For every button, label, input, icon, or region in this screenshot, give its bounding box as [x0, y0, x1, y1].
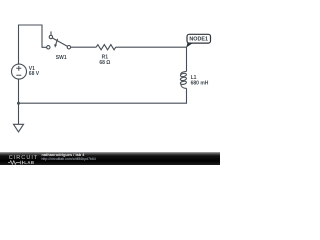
svg-text:680 mH: 680 mH	[191, 81, 209, 87]
svg-text:68 V: 68 V	[29, 71, 40, 77]
svg-text:68 Ω: 68 Ω	[99, 60, 110, 66]
svg-text:SW1: SW1	[56, 55, 67, 61]
svg-text:NODE1: NODE1	[189, 37, 208, 43]
